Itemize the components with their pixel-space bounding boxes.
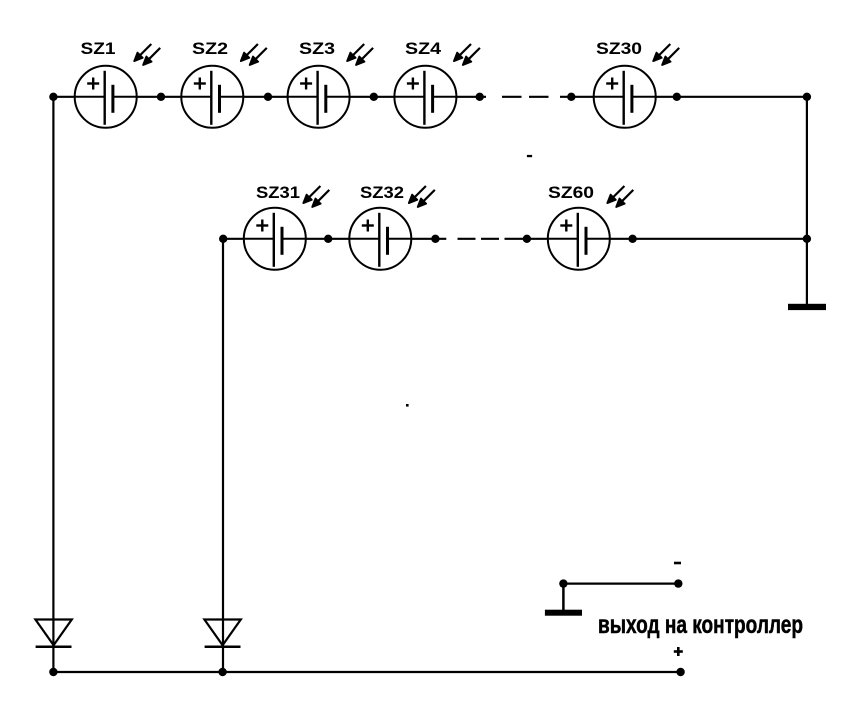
wire second bus vertical (string 2 positive to diode D2): [222, 239, 224, 672]
junction D1 to bottom bus: [49, 668, 57, 676]
wire top row string 1: [53, 96, 807, 98]
solar cell SZ3: [288, 66, 350, 128]
node minus output terminal: [674, 579, 682, 587]
svg-text:SZ31: SZ31: [256, 183, 300, 202]
node plus output terminal: [676, 668, 684, 676]
solar cell SZ32: [349, 208, 411, 270]
stray minus mark mid schematic: [527, 155, 532, 157]
junction node top-left (string 1 start): [49, 93, 57, 101]
light arrows SZ4: [454, 44, 480, 65]
svg-text:SZ4: SZ4: [405, 39, 442, 58]
junction SZ32-dashed: [431, 235, 439, 243]
svg-text:SZ1: SZ1: [81, 39, 116, 58]
junction SZ31-SZ32: [324, 235, 332, 243]
light arrows SZ30: [653, 44, 679, 65]
junction SZ4-dashed: [476, 93, 484, 101]
wire right bus vertical (negative to ground): [806, 97, 808, 305]
label plus polarity at output: [674, 647, 683, 656]
svg-text:SZ32: SZ32: [360, 183, 404, 202]
light arrows SZ1: [134, 44, 160, 65]
light arrows SZ32: [409, 186, 435, 207]
junction string2 to right bus: [803, 235, 811, 243]
svg-text:SZ3: SZ3: [299, 39, 335, 58]
svg-text:SZ60: SZ60: [548, 183, 594, 202]
solar cell SZ2: [181, 66, 243, 128]
solar cell SZ4: [394, 66, 456, 128]
junction SZ1-SZ2: [157, 93, 165, 101]
light arrows SZ2: [241, 44, 267, 65]
wire left bus vertical (string 1 positive to diode D1): [52, 97, 54, 672]
svg-text:выход на контроллер: выход на контроллер: [598, 611, 803, 639]
junction SZ2-SZ3: [264, 93, 272, 101]
wire minus output to ground: [563, 582, 678, 584]
wire second row string 2: [223, 238, 807, 240]
solar cell SZ30: [594, 66, 656, 128]
light arrows SZ31: [303, 186, 329, 207]
svg-text:SZ2: SZ2: [192, 39, 228, 58]
solar cell SZ1: [75, 66, 137, 128]
solar cell SZ60: [548, 208, 610, 270]
wire bottom positive bus: [53, 671, 680, 673]
junction minus wire left: [559, 579, 567, 587]
junction SZ30 output: [673, 93, 681, 101]
junction D2 to bottom bus: [218, 668, 226, 676]
junction top-right corner: [803, 93, 811, 101]
junction dashed-SZ60: [523, 235, 531, 243]
junction SZ60 output: [628, 235, 636, 243]
light arrows SZ3: [347, 44, 373, 65]
junction SZ3-SZ4: [370, 93, 378, 101]
label minus polarity at output: [674, 562, 681, 565]
solar cell SZ31: [244, 208, 306, 270]
ground right (negative bus): [788, 304, 826, 310]
light arrows SZ60: [607, 186, 633, 207]
diode D1: [35, 620, 71, 647]
junction dashed-SZ30: [567, 93, 575, 101]
stray dot mark mid schematic: [406, 404, 409, 407]
svg-text:SZ30: SZ30: [596, 39, 642, 58]
junction node string 2 start: [219, 235, 227, 243]
ground output (minus rail): [545, 584, 582, 616]
diode D2: [204, 620, 240, 647]
